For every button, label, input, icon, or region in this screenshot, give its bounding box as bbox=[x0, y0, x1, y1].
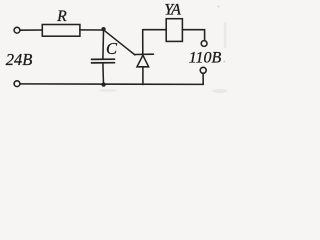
svg-text:110B: 110B bbox=[189, 50, 222, 67]
wire: bottom rail bbox=[20, 83, 203, 86]
diode VD cathode bar bbox=[135, 53, 154, 55]
wire: relay coil right to output terminal bbox=[182, 30, 204, 41]
scan smudge bottom right corner bbox=[212, 89, 228, 93]
scan smudge right edge bbox=[224, 22, 227, 48]
terminal: 24V input top bbox=[14, 27, 20, 33]
node B junction dot on bottom rail bbox=[101, 82, 105, 86]
scan smudge bottom middle bbox=[99, 89, 117, 92]
diode VD triangle bbox=[137, 55, 149, 67]
wire: diagonal from node A to diode cathode bar bbox=[105, 31, 135, 55]
relay coil YA bbox=[166, 19, 182, 42]
svg-text:R: R bbox=[56, 8, 67, 25]
terminal: 24V input bottom bbox=[14, 81, 20, 87]
wire: diode anode to bottom rail bbox=[142, 67, 144, 85]
wire: capacitor C bottom lead bbox=[102, 64, 105, 85]
wire: 110V terminal stub to bottom rail bbox=[202, 73, 204, 84]
terminal: relay output (110V top) bbox=[201, 41, 207, 47]
capacitor C top plate bbox=[92, 58, 115, 60]
svg-text:YA: YA bbox=[164, 1, 181, 18]
wire: diode cathode lead up bbox=[142, 30, 144, 55]
capacitor C bottom plate bbox=[92, 62, 115, 64]
wire: capacitor C top lead bbox=[102, 32, 105, 59]
wire: diode top corner to relay coil left bbox=[143, 29, 167, 31]
svg-text:24B: 24B bbox=[6, 50, 33, 69]
scan speck after 110B bbox=[224, 61, 226, 63]
node A junction dot bbox=[101, 27, 105, 31]
wire: resistor R to node A bbox=[80, 29, 102, 31]
resistor R bbox=[42, 25, 80, 37]
svg-text:C: C bbox=[106, 39, 118, 58]
terminal: 110V bottom bbox=[200, 67, 206, 73]
wire: top-left terminal to resistor R bbox=[20, 29, 42, 31]
scan speck top right bbox=[99, 6, 228, 93]
